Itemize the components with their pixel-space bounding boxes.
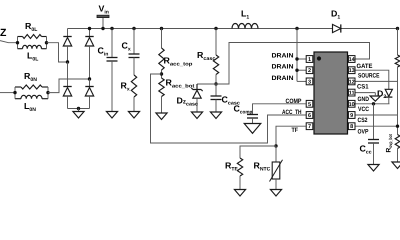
ground Ccc — [368, 165, 379, 172]
svg-text:8: 8 — [350, 124, 353, 130]
capacitor Cin — [110, 27, 113, 30]
wire SOURCE pin13 — [356, 70, 389, 89]
node VCC to Ccc — [372, 102, 375, 105]
ground GND pin symbol — [370, 96, 380, 101]
resistor Racc_top — [160, 27, 163, 30]
thermistor RNTC — [275, 146, 277, 162]
wire N-phase to bridge — [48, 79, 90, 93]
wire L-phase to bridge — [47, 43, 68, 62]
svg-text:TF: TF — [292, 127, 299, 134]
ground Cin — [106, 112, 117, 119]
svg-text:6: 6 — [308, 113, 311, 119]
svg-text:ACC_TH: ACC_TH — [282, 109, 302, 116]
svg-text:VCC: VCC — [358, 106, 369, 113]
svg-text:Z: Z — [0, 27, 7, 39]
pin 8 box — [348, 123, 355, 130]
pin 9 box — [348, 112, 355, 119]
node N input wire (mains N) — [0, 92, 15, 94]
inductor L0L — [18, 48, 23, 50]
node OVP on Rovp divider — [396, 125, 399, 128]
svg-text:CS2: CS2 — [358, 117, 368, 124]
bridge rectifier diode top-left — [67, 29, 69, 37]
bridge rectifier diode bottom-left — [63, 86, 71, 88]
wire top Vin rail — [68, 28, 398, 30]
wire TF to RTF — [240, 146, 276, 158]
svg-text:OVP: OVP — [358, 128, 369, 135]
wire R0L/L0L left junction — [17, 37, 19, 49]
svg-text:1: 1 — [308, 57, 311, 63]
resistor Rovp_top — [397, 29, 399, 56]
wire GND pin11 — [356, 92, 376, 94]
wire drain pin3 — [297, 80, 306, 82]
bridge rectifier diode bottom-right — [85, 86, 93, 88]
wire bridge bottom rail — [68, 108, 90, 110]
pin 2 box — [306, 67, 313, 74]
wire R0L/L0L right junction — [46, 37, 48, 49]
ground Rovp_bot — [392, 162, 400, 169]
svg-text:2: 2 — [308, 68, 311, 74]
ground DZcasc — [191, 112, 202, 119]
diode D2 — [385, 89, 392, 96]
resistor R0L — [18, 36, 23, 38]
ground Ccasc — [210, 112, 221, 119]
pin 14 box — [348, 56, 355, 63]
svg-text:COMP: COMP — [286, 98, 302, 105]
wire R0N/L0N right junction — [47, 87, 49, 99]
pin 7 box — [306, 123, 313, 130]
pin 5 box — [306, 100, 313, 107]
ground RNTC — [270, 190, 281, 197]
wire drain pin2 — [297, 69, 306, 71]
svg-text:5: 5 — [308, 102, 311, 108]
ground RTF — [234, 190, 245, 197]
wire cascode node to GATE pin — [216, 43, 370, 85]
svg-text:11: 11 — [349, 91, 355, 97]
resistor Racc_bot — [159, 78, 164, 96]
wire CS1 pin12 — [356, 80, 398, 82]
svg-text:9: 9 — [350, 113, 353, 119]
svg-text:DRAIN: DRAIN — [272, 64, 294, 71]
wire VCC pin10 — [356, 103, 390, 105]
wire ACC_TH route — [151, 74, 307, 143]
svg-text:10: 10 — [349, 102, 355, 108]
node bridge right AC input — [88, 77, 91, 80]
wire drain bus — [296, 29, 298, 82]
pin 6 box — [306, 112, 313, 119]
pin 12 box — [348, 78, 355, 85]
capacitor Ccomp — [247, 114, 258, 116]
svg-text:13: 13 — [349, 68, 355, 74]
resistor Rcasc — [214, 27, 217, 30]
svg-text:12: 12 — [349, 79, 355, 85]
ground Cx/Rx branch — [128, 112, 139, 119]
svg-text:SOURCE: SOURCE — [358, 72, 380, 79]
wire TF pin7 — [276, 126, 306, 146]
node rail to Rovp branch — [396, 27, 399, 30]
node ACC divider midpoint — [160, 72, 163, 75]
node Vin terminal — [102, 18, 104, 29]
pin 1 box — [306, 56, 313, 63]
node bridge left AC input — [66, 60, 69, 63]
svg-text:DRAIN: DRAIN — [272, 75, 294, 82]
capacitor Cx — [132, 27, 135, 30]
diode D1 — [333, 24, 341, 32]
svg-text:GND: GND — [358, 96, 370, 103]
svg-text:GATE: GATE — [357, 63, 373, 70]
IC U1 body — [314, 52, 348, 134]
pin 11 box — [348, 89, 355, 96]
svg-text:14: 14 — [349, 57, 356, 63]
wire COMP pin5 — [253, 104, 307, 115]
ground bridge — [78, 109, 80, 112]
IC pin1 marker dot — [317, 56, 321, 60]
svg-text:CS1: CS1 — [357, 83, 369, 90]
svg-text:3: 3 — [308, 79, 311, 85]
capacitor Ccasc — [215, 84, 217, 96]
node cascode — [214, 82, 217, 85]
zener diode DZcasc — [196, 84, 198, 90]
wire CS2 pin9 — [356, 114, 398, 116]
wire cascode to zener — [197, 83, 216, 85]
resistor Rovp_bot — [395, 135, 400, 149]
inductor L1 — [232, 24, 258, 29]
resistor Rx — [131, 75, 136, 97]
wire R0N/L0N left junction — [14, 87, 16, 99]
pin 13 box — [348, 67, 355, 74]
resistor RTF — [237, 158, 242, 176]
wire OVP pin8 — [356, 125, 398, 127]
wire drain pin1 — [297, 58, 306, 60]
svg-text:7: 7 — [308, 124, 311, 130]
pin 3 box — [306, 78, 313, 85]
node TF — [274, 144, 277, 147]
pin 10 box — [348, 100, 355, 107]
node drain bus tap on rail — [295, 27, 298, 30]
capacitor Ccc — [373, 104, 375, 140]
node Z input terminal (mains L) — [0, 41, 18, 43]
resistor R0N — [15, 86, 21, 88]
inductor L0N — [15, 98, 21, 100]
ground Racc_bot — [156, 113, 167, 120]
svg-text:DRAIN: DRAIN — [272, 53, 294, 60]
bridge rectifier diode top-right — [89, 29, 91, 37]
ground Ccomp — [244, 124, 261, 134]
